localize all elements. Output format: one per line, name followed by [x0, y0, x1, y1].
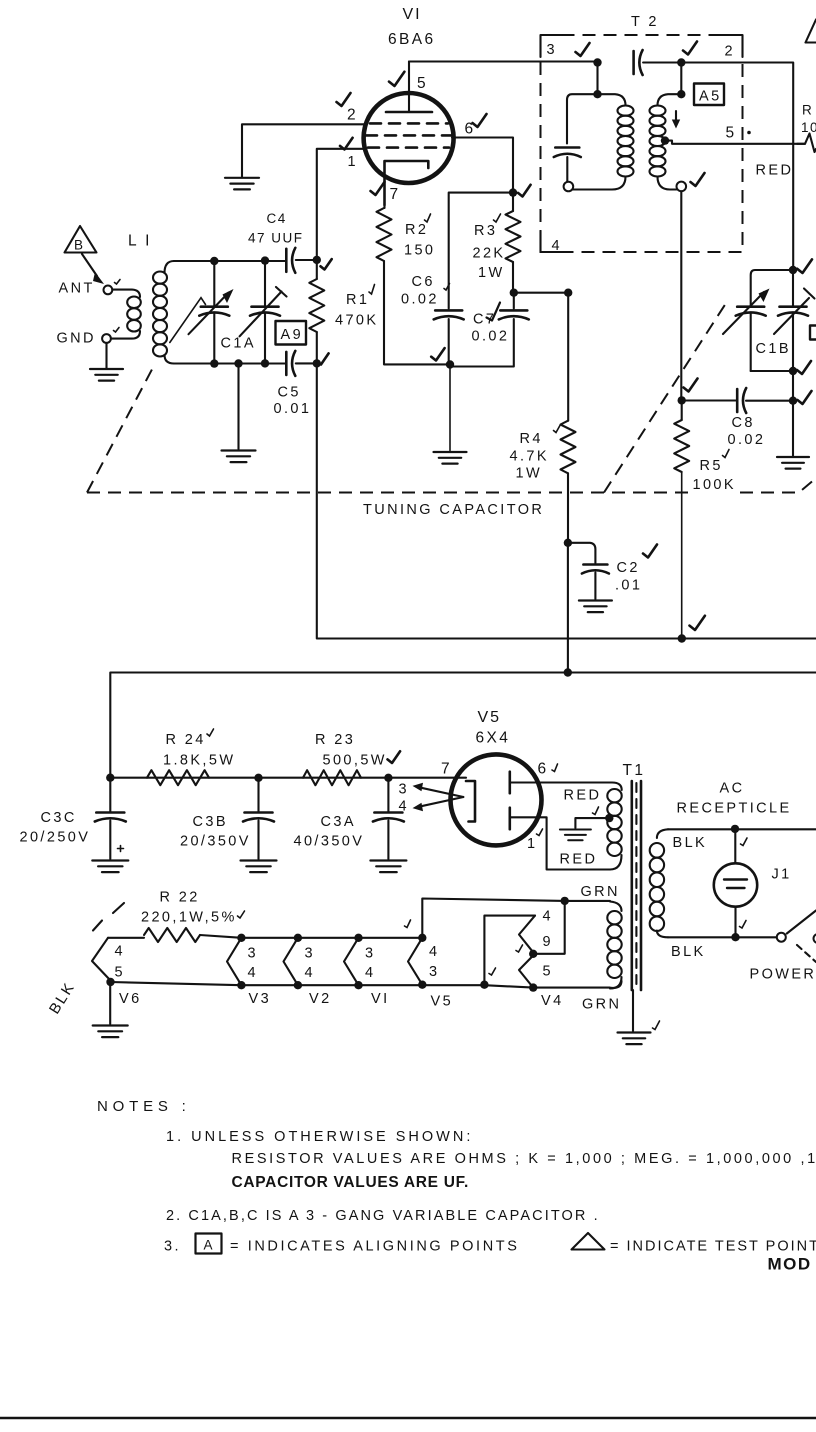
- svg-text:10: 10: [801, 120, 816, 135]
- capacitor C8 0.02: [789, 397, 797, 405]
- tube V1 6BA6 envelope: [364, 93, 454, 183]
- svg-text:L I: L I: [128, 233, 152, 250]
- svg-text:C5: C5: [278, 385, 301, 401]
- svg-text:1. UNLESS OTHERWISE SHOWN:: 1. UNLESS OTHERWISE SHOWN:: [166, 1129, 473, 1145]
- V1 pin 7 lead: [383, 205, 385, 208]
- T1 core ground: [632, 990, 634, 1031]
- svg-text:CAPACITOR VALUES ARE UF.: CAPACITOR VALUES ARE UF.: [232, 1174, 470, 1191]
- svg-text:150: 150: [404, 243, 435, 259]
- heater top rail with R22: [108, 937, 144, 939]
- electrolytic C3B 20/350V: [254, 774, 262, 782]
- heater V1: [354, 934, 362, 942]
- svg-text:3: 3: [547, 42, 557, 58]
- svg-text:4: 4: [248, 965, 258, 981]
- svg-text:V6: V6: [119, 991, 142, 1007]
- heater V3: [237, 934, 245, 942]
- svg-text:V2: V2: [309, 991, 332, 1007]
- svg-text:TUNING CAPACITOR: TUNING CAPACITOR: [363, 502, 544, 518]
- svg-text:5: 5: [726, 125, 737, 142]
- svg-text:470K: 470K: [335, 313, 378, 329]
- wire: V1 plate top to T2 primary: [409, 60, 598, 62]
- heater V2: [294, 934, 302, 942]
- T1 core: [630, 781, 633, 990]
- V1 pin 2 wire to ground: [242, 124, 365, 176]
- svg-text:BLK: BLK: [673, 835, 708, 851]
- svg-text:4.7K: 4.7K: [510, 449, 549, 465]
- svg-text:POWER: POWER: [750, 967, 816, 983]
- svg-text:20/250V: 20/250V: [20, 830, 91, 846]
- svg-text:1W: 1W: [478, 265, 505, 281]
- V5 plate 2 / pin 1: [508, 808, 511, 830]
- svg-text:4: 4: [115, 944, 125, 960]
- svg-text:RED: RED: [756, 163, 794, 179]
- svg-text:C4: C4: [267, 211, 287, 226]
- svg-text:VI: VI: [371, 991, 390, 1007]
- svg-text:= INDICATE TEST POINT: = INDICATE TEST POINT: [610, 1239, 816, 1255]
- svg-text:J1: J1: [772, 867, 792, 883]
- ground at V6: [106, 978, 114, 986]
- svg-text:7: 7: [441, 761, 452, 778]
- wire top rail to right edge: [681, 63, 793, 271]
- svg-text:RESISTOR VALUES ARE OHMS ;: RESISTOR VALUES ARE OHMS ; K = 1,000 ; M…: [232, 1151, 816, 1167]
- svg-text:0.01: 0.01: [274, 401, 312, 417]
- svg-text:5: 5: [543, 964, 553, 980]
- svg-text:1.8K,5W: 1.8K,5W: [163, 753, 235, 769]
- T2 secondary tap with arrow: [661, 136, 669, 144]
- svg-text:5: 5: [115, 965, 125, 981]
- heater V5: [418, 934, 426, 942]
- svg-text:ANT: ANT: [59, 281, 95, 297]
- V5 heater arrows pins 3,4: [419, 787, 463, 806]
- test point B triangle: [65, 226, 97, 253]
- svg-text:3.: 3.: [164, 1239, 181, 1255]
- svg-text:4: 4: [552, 238, 562, 254]
- svg-text:V5: V5: [478, 709, 502, 726]
- wire: L1 top rail to C4: [174, 260, 286, 262]
- resistor R5 100K: [681, 400, 683, 420]
- svg-text:40/350V: 40/350V: [294, 834, 365, 850]
- svg-text:5: 5: [417, 75, 428, 92]
- svg-text:4: 4: [399, 799, 409, 815]
- T2 primary winding: [596, 63, 598, 95]
- tube V5 6X4 envelope: [451, 754, 542, 845]
- V5 plate 1 / pin 6: [508, 772, 511, 794]
- svg-text:T1: T1: [623, 762, 646, 779]
- variable capacitor C1B section 1: [751, 270, 793, 371]
- svg-text:V3: V3: [249, 991, 272, 1007]
- antenna coupling coil (part of L1): [112, 290, 140, 297]
- resistor R4 4.7K 1W: [561, 421, 576, 474]
- T1 primary winding (BLK): [657, 829, 668, 838]
- transformer T2 dashed enclosure: [541, 35, 743, 252]
- svg-text:A: A: [204, 1238, 215, 1253]
- C1B bottom wire: [751, 370, 793, 372]
- svg-text:BLK: BLK: [46, 979, 79, 1017]
- resistor R2 150: [377, 208, 392, 261]
- T1 filament winding (GRN): [610, 902, 622, 912]
- svg-text:R 23: R 23: [315, 732, 355, 748]
- svg-text:NOTES :: NOTES :: [97, 1098, 191, 1115]
- B+ bus wire: [110, 673, 816, 778]
- capacitor C7 0.02: [513, 293, 515, 309]
- capacitor C6 0.02: [449, 193, 513, 309]
- T1 HV center tap to ground: [605, 814, 613, 822]
- svg-text:GRN: GRN: [581, 884, 620, 900]
- R4 lead down to C2 node: [567, 473, 569, 543]
- svg-text:7: 7: [390, 186, 401, 203]
- svg-text:A9: A9: [281, 327, 304, 343]
- svg-text:RED: RED: [560, 852, 598, 868]
- svg-text:C6: C6: [412, 274, 435, 290]
- svg-text:R 24: R 24: [166, 732, 206, 748]
- svg-text:0.02: 0.02: [401, 292, 439, 308]
- svg-text:6X4: 6X4: [476, 730, 511, 747]
- svg-text:9: 9: [543, 934, 553, 950]
- svg-text:R2: R2: [405, 222, 428, 238]
- T2 secondary bottom wire down to R5: [680, 191, 682, 400]
- V1 pin 1 wire down to AVC node: [317, 149, 365, 260]
- V1 cathode: [385, 161, 429, 205]
- B+ rail: [110, 777, 466, 779]
- svg-text:3: 3: [305, 946, 315, 962]
- svg-text:B: B: [74, 238, 85, 253]
- svg-text:4: 4: [429, 944, 439, 960]
- svg-text:1: 1: [348, 154, 358, 170]
- svg-text:BLK: BLK: [671, 944, 706, 960]
- svg-text:R1: R1: [346, 292, 369, 308]
- wire BLK top to right edge: [668, 828, 816, 830]
- electrolytic C3A 40/350V: [384, 774, 392, 782]
- svg-text:500,5W: 500,5W: [323, 753, 387, 769]
- V1 plate: [386, 111, 432, 114]
- aligning point A9: [276, 321, 307, 345]
- ground below C8 right node: [792, 401, 794, 456]
- svg-text:0.02: 0.02: [728, 432, 766, 448]
- svg-text:47 UUF: 47 UUF: [248, 231, 304, 246]
- V1 pin 5 lead to top wire: [408, 62, 410, 113]
- svg-text:2. C1A,B,C IS A 3 - GANG: 2. C1A,B,C IS A 3 - GANG VARIABLE CAPACI…: [166, 1208, 600, 1224]
- resistor R3 22K 1W: [512, 193, 514, 211]
- svg-text:R: R: [802, 103, 813, 118]
- svg-text:4: 4: [543, 909, 553, 925]
- svg-text:2: 2: [725, 44, 735, 60]
- wire BLK bottom with power switch: [668, 936, 777, 938]
- wire: L1 bottom rail to C5: [174, 362, 286, 364]
- tuning capacitor dashed gang outline: [87, 368, 153, 493]
- ground at GND terminal: [105, 343, 107, 368]
- svg-text:4: 4: [365, 965, 375, 981]
- svg-text:R4: R4: [520, 431, 543, 447]
- heater V5 top feed to GRN winding: [422, 899, 610, 938]
- svg-text:AC: AC: [720, 781, 745, 797]
- svg-text:A5: A5: [699, 89, 722, 105]
- ground from L1 bottom rail: [237, 364, 239, 450]
- svg-text:220,1W,5%: 220,1W,5%: [141, 910, 237, 926]
- partial test point triangle at right edge: [806, 20, 816, 43]
- svg-text:= INDICATES ALIGNING POINTS: = INDICATES ALIGNING POINTS: [230, 1239, 520, 1255]
- svg-text:C3B: C3B: [193, 814, 228, 830]
- svg-text:3: 3: [248, 946, 258, 962]
- svg-text:C3C: C3C: [41, 810, 77, 826]
- V5 cathode bracket: [466, 781, 475, 822]
- variable capacitor C1B section 2: [792, 270, 794, 401]
- svg-text:T 2: T 2: [631, 14, 659, 30]
- svg-text:RED: RED: [564, 788, 602, 804]
- variable capacitor C1A section 2 (trimmer arm): [264, 261, 266, 364]
- svg-text:R5: R5: [700, 458, 723, 474]
- svg-text:6BA6: 6BA6: [388, 31, 436, 48]
- wire C7/R3 node to T2 pin 4 line: [514, 292, 568, 294]
- svg-text:.01: .01: [615, 578, 642, 594]
- svg-text:MOD: MOD: [768, 1255, 812, 1274]
- svg-text:C8: C8: [732, 415, 755, 431]
- svg-text:0.02: 0.02: [472, 329, 510, 345]
- T1 HV winding (RED): [607, 789, 621, 802]
- junction to C1B: [789, 266, 797, 274]
- pilot lamp J1: [734, 829, 736, 863]
- svg-text:100K: 100K: [693, 477, 736, 493]
- V1 pin 6 wire to R3: [452, 138, 513, 193]
- svg-text:V4: V4: [541, 993, 564, 1009]
- svg-text:VI: VI: [403, 6, 422, 23]
- electrolytic C3C 20/250V: [106, 774, 114, 782]
- svg-text:GND: GND: [57, 331, 96, 347]
- svg-text:22K: 22K: [473, 246, 506, 262]
- ground at C6/C7 bottom node: [449, 365, 451, 451]
- svg-text:1: 1: [527, 836, 537, 852]
- svg-text:20/350V: 20/350V: [180, 834, 251, 850]
- V1 grids (dashed): [370, 122, 448, 125]
- T2 primary tuning capacitor: [555, 146, 579, 149]
- heater V6: [92, 938, 111, 981]
- svg-text:3: 3: [429, 964, 439, 980]
- svg-text:3: 3: [399, 782, 409, 798]
- partial aligning box at right edge: [810, 326, 816, 340]
- AVC bus wire: [317, 363, 816, 638]
- wire T2 pin4 node down to R4: [567, 293, 569, 421]
- svg-text:R 22: R 22: [160, 890, 200, 906]
- svg-text:C1A: C1A: [221, 336, 256, 352]
- T2 secondary winding: [680, 63, 682, 95]
- svg-text:R3: R3: [474, 223, 497, 239]
- partial resistor at right edge (tap wire): [797, 134, 816, 153]
- svg-text:V5: V5: [431, 994, 454, 1010]
- capacitor C5 0.01: [285, 352, 288, 375]
- R4 line down to lower bus: [567, 543, 569, 673]
- arrow from test point B to ANT: [82, 254, 97, 276]
- resistor R1 470K: [316, 260, 318, 279]
- svg-text:3: 3: [365, 946, 375, 962]
- dashed BLK lead upper left: [93, 903, 124, 931]
- svg-text:C3A: C3A: [321, 814, 356, 830]
- bottom rule: [0, 1417, 816, 1419]
- aligning point A5: [694, 84, 724, 106]
- svg-text:4: 4: [305, 965, 315, 981]
- svg-text:6: 6: [538, 761, 549, 778]
- heater bottom rail: [111, 981, 622, 988]
- variable capacitor C1A section 1: [213, 261, 215, 364]
- resistor R23 500 5W: [303, 770, 361, 785]
- svg-text:2: 2: [347, 107, 358, 124]
- svg-text:C2: C2: [617, 560, 640, 576]
- power switch blade: [787, 911, 816, 934]
- svg-text:RECEPTICLE: RECEPTICLE: [677, 801, 792, 817]
- resistor R24 1.8K 5W: [147, 770, 209, 785]
- svg-text:1W: 1W: [516, 466, 543, 482]
- junction dots on antenna rails: [210, 257, 218, 265]
- svg-text:C1B: C1B: [756, 341, 791, 357]
- svg-text:GRN: GRN: [582, 997, 621, 1013]
- heater V4 (two sections): [533, 901, 565, 954]
- capacitor C2 .01: [568, 543, 596, 563]
- T2 coupling capacitor on top wire: [632, 51, 635, 74]
